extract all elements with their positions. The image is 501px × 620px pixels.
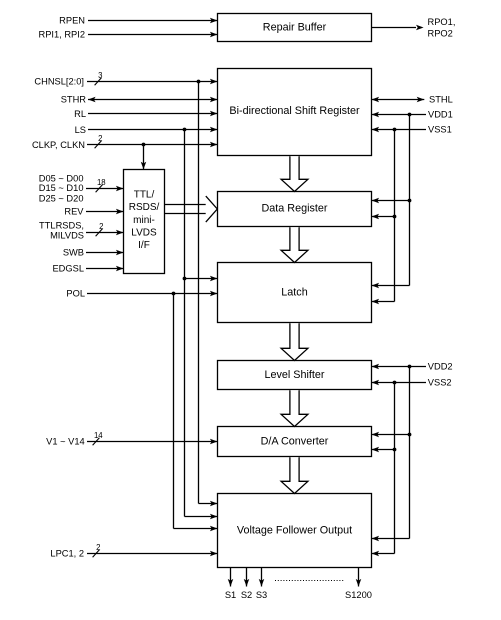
junction on CHNSL wire [197,80,201,84]
wire output S3 [259,568,265,587]
wire RL [88,111,218,117]
svg-text:VSS1: VSS1 [428,125,452,135]
wire VSS1 branch into latch [372,299,395,305]
block U5 Latch [218,263,372,323]
block U4 Data Register [218,192,372,227]
svg-text:14: 14 [94,431,103,440]
svg-text:STHR: STHR [61,94,87,104]
bus arrow: TTL I/F to data register [165,196,218,222]
junction on CLKP wire [142,143,146,147]
svg-text:S3: S3 [256,590,267,600]
svg-text:2: 2 [96,543,100,552]
bus arrow: data register to latch [281,227,308,262]
svg-text:LS: LS [75,125,86,135]
junction VDD2 [408,365,412,369]
block U2 Bi-directional Shift Register [218,69,372,156]
wire output S1200 [356,568,362,587]
svg-text:POL: POL [66,289,85,299]
junction VSS1 to data register [393,215,397,219]
wire VSS2 branch into D/A converter [372,447,395,453]
wire CHNSL vertical down to voltage follower [199,82,218,507]
wire REV [86,209,124,215]
wire VDD1 [372,112,427,118]
svg-text:VDD1: VDD1 [428,110,453,120]
svg-text:EDGSL: EDGSL [52,264,84,274]
wire CHNSL[2:0] with 3-bit slash [87,78,218,85]
svg-text:2: 2 [99,222,103,231]
wire CLKP branch down into TTL I/F [141,145,147,170]
svg-text:LPC1, 2: LPC1, 2 [50,548,84,558]
wire VDD2 [372,364,427,370]
wire VDD1 branch into data register [372,198,410,204]
wire VDD2 branch into voltage follower [372,536,410,542]
wire VDD1 vertical [409,115,411,286]
svg-text:Level Shifter: Level Shifter [264,369,324,381]
svg-text:18: 18 [97,178,106,187]
bus arrow: D/A converter to voltage follower [281,457,308,493]
junction VDD1 [408,113,412,117]
svg-text:RPO1,: RPO1, [428,17,456,27]
wire VSS2 vertical [394,383,396,554]
svg-text:MILVDS: MILVDS [50,230,84,240]
svg-text:RPEN: RPEN [59,16,85,26]
wire STHR (bidirectional) [88,97,218,103]
svg-text:SWB: SWB [63,247,84,257]
svg-text:3: 3 [98,71,102,80]
junction on POL wire [172,292,176,296]
svg-text:TTLRSDS,: TTLRSDS, [39,220,84,230]
bus arrow: latch to level shifter [281,323,308,360]
svg-text:CHNSL[2:0]: CHNSL[2:0] [34,76,84,86]
svg-text:mini-: mini- [133,215,155,226]
block U7 D/A Converter [218,427,372,457]
junction on LS wire [183,128,187,132]
svg-text:RSDS/: RSDS/ [129,202,160,213]
junction VDD2 to D/A converter [408,433,412,437]
wire VSS2 [372,380,427,386]
wire LS branch into latch [185,276,218,282]
junction VSS2 to D/A converter [393,448,397,452]
bus arrow: level shifter to D/A converter [281,390,308,426]
svg-text:D05 ~ D00: D05 ~ D00 [39,174,84,184]
svg-text:D/A Converter: D/A Converter [261,435,329,447]
bus arrow: shift register to data register [281,156,308,191]
svg-text:S2: S2 [241,590,252,600]
wire output S1 [228,568,234,587]
svg-text:Data Register: Data Register [261,203,327,215]
wire STHL (bidirectional) [372,97,425,103]
block U1 Repair Buffer [218,14,372,42]
junction VDD1 to data register [408,199,412,203]
wire VSS1 [372,127,427,133]
wire EDGSL [86,266,124,272]
svg-text:REV: REV [64,206,84,216]
svg-text:LVDS: LVDS [131,228,157,239]
wire LPC1,2 with 2-bit slash [87,550,218,557]
wire VDD2 vertical [409,367,411,539]
block U3 TTL/RSDS/mini-LVDS interface [124,170,165,274]
svg-text:S1200: S1200 [345,590,372,600]
wire POL vertical down to voltage follower [174,294,218,532]
svg-text:RL: RL [74,109,86,119]
wire RPI1/RPI2 [88,32,218,38]
wire VDD1 branch into latch [372,283,410,289]
svg-text:D25 ~ D20: D25 ~ D20 [39,193,84,203]
wire LS vertical down to voltage follower [185,130,218,520]
wire VSS1 branch into data register [372,214,395,220]
junction VSS2 [393,381,397,385]
svg-text:STHL: STHL [429,95,453,105]
wire POL into latch [87,291,218,297]
svg-text:RPO2: RPO2 [428,28,453,38]
svg-text:VDD2: VDD2 [428,362,453,372]
block U6 Level Shifter [218,361,372,390]
wire data bus with 18-bit slash [86,185,124,192]
wire VDD2 branch into D/A converter [372,432,410,438]
svg-text:S1: S1 [225,590,236,600]
wire CLKP/CLKN with 2-bit slash [87,141,218,148]
svg-text:I/F: I/F [138,240,150,251]
wire VSS2 branch into voltage follower [372,551,395,557]
svg-text:Latch: Latch [281,286,307,298]
junction LS branch to latch [183,277,187,281]
wire RPEN [88,18,218,24]
svg-text:RPI1, RPI2: RPI1, RPI2 [38,30,85,40]
svg-text:Voltage Follower Output: Voltage Follower Output [237,524,352,536]
wire V1~V14 with 14-bit slash [87,438,218,445]
svg-text:Bi-directional Shift Register: Bi-directional Shift Register [229,105,360,117]
svg-text:TTL/: TTL/ [134,189,155,200]
block U8 Voltage Follower Output [218,494,372,568]
svg-text:VSS2: VSS2 [428,378,452,388]
svg-text:Repair Buffer: Repair Buffer [263,21,327,33]
ellipsis dotted line between S3 and S1200 [275,580,345,582]
wire output S2 [244,568,250,587]
wire VSS1 vertical [394,130,396,302]
svg-text:V1 ~ V14: V1 ~ V14 [46,437,85,447]
svg-text:D15 ~ D10: D15 ~ D10 [39,183,84,193]
wire SWB [86,250,124,256]
junction VSS1 [393,128,397,132]
svg-text:CLKP, CLKN: CLKP, CLKN [32,140,85,150]
svg-text:2: 2 [98,134,102,143]
wire LS [88,127,218,133]
wire TTLRSDS/MILVDS with 2-bit slash [86,229,124,236]
wire RPO1/RPO2 output [372,25,424,31]
